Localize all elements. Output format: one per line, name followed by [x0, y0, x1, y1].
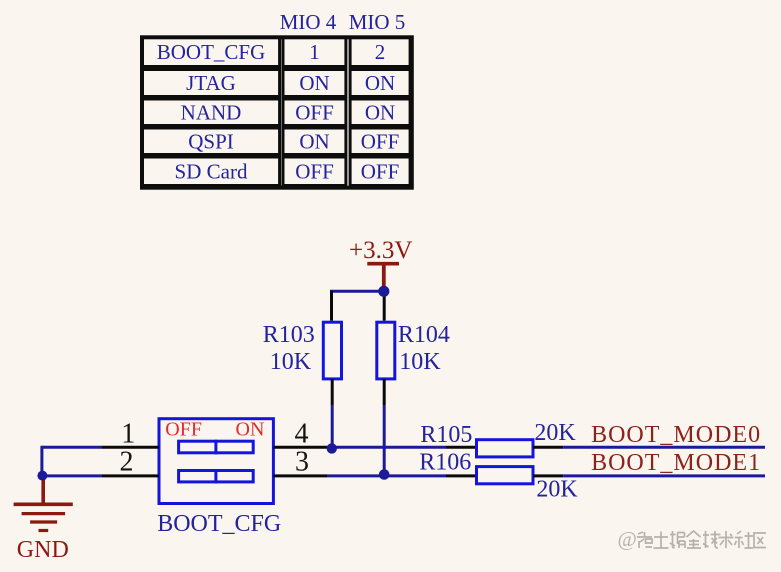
svg-text:R106: R106: [419, 450, 471, 476]
ground bar 4: [39, 529, 49, 532]
switch element row2: [179, 471, 254, 482]
svg-text:NAND: NAND: [181, 100, 242, 124]
resistor R103: [323, 322, 341, 379]
table cell r5c1: [143, 157, 280, 186]
svg-text:ON: ON: [299, 129, 329, 153]
junction node ground: [37, 471, 47, 481]
svg-text:10K: 10K: [270, 349, 312, 375]
watermark char shu: [719, 531, 734, 548]
svg-text:QSPI: QSPI: [188, 129, 234, 153]
svg-text:2: 2: [120, 446, 134, 477]
resistor R106 right pin: [533, 474, 563, 477]
ground bar 3: [30, 520, 57, 523]
watermark char xi: [637, 532, 652, 548]
svg-text:JTAG: JTAG: [186, 71, 236, 95]
svg-text:SD Card: SD Card: [175, 159, 248, 183]
switch pin 3: [273, 474, 327, 477]
table cell r2c3: [350, 70, 410, 97]
watermark char jin: [687, 531, 702, 548]
junction node A (R103 to pin4 net): [327, 443, 337, 453]
wire R104 to node B: [383, 405, 386, 475]
svg-text:R105: R105: [420, 422, 472, 448]
table cell r3c2: [283, 99, 346, 126]
table cell r1c2: [283, 38, 346, 67]
table cell r5c3: [350, 157, 410, 186]
svg-text:2: 2: [375, 40, 386, 64]
power symbol +3.3V bar: [367, 262, 399, 266]
watermark char she: [735, 531, 754, 548]
wire pin1 net left: [42, 446, 102, 449]
wire R103 to node A: [331, 405, 334, 448]
svg-text:BOOT_CFG: BOOT_CFG: [157, 40, 266, 64]
svg-text:GND: GND: [17, 537, 69, 563]
svg-text:MIO 4: MIO 4: [280, 10, 337, 34]
svg-text:ON: ON: [365, 71, 395, 95]
switch element row1: [179, 441, 254, 453]
switch pin 2: [102, 474, 159, 477]
wire pin2 net left: [42, 474, 102, 477]
switch pin 1: [102, 446, 159, 449]
svg-text:3: 3: [295, 446, 309, 477]
wire net BOOT_MODE1: [563, 474, 765, 477]
svg-text:ON: ON: [365, 100, 395, 124]
resistor R105: [477, 440, 534, 457]
watermark char ji: [703, 531, 721, 548]
table cell r4c2: [283, 128, 346, 155]
watermark char tu: [654, 532, 669, 549]
resistor R105 left pin: [446, 446, 477, 449]
table cell r2c2: [283, 70, 346, 97]
junction node power: [378, 286, 389, 297]
resistor R104 top pin: [383, 291, 386, 320]
resistor R104 bottom pin: [383, 379, 386, 405]
svg-text:10K: 10K: [399, 349, 441, 375]
junction node B (R104 to pin3 net): [379, 469, 390, 480]
switch U BOOT_CFG body: [159, 419, 273, 504]
svg-text:MIO 5: MIO 5: [349, 10, 406, 34]
svg-text:BOOT_MODE1: BOOT_MODE1: [591, 450, 761, 476]
table cell r5c2: [283, 157, 346, 186]
svg-text:ON: ON: [236, 419, 265, 441]
svg-text:BOOT_CFG: BOOT_CFG: [157, 511, 281, 537]
wire net BOOT_MODE0: [563, 446, 765, 449]
watermark char jue: [670, 531, 685, 548]
table cell r1c3: [350, 38, 410, 67]
watermark char qu: [754, 533, 766, 548]
ground bar 2: [22, 512, 66, 515]
switch pin 4: [273, 446, 327, 449]
svg-text:OFF: OFF: [361, 159, 400, 183]
svg-text:OFF: OFF: [295, 100, 334, 124]
resistor R106: [477, 467, 534, 484]
wire pin4 net to R105: [327, 446, 446, 449]
ground bar 1: [14, 502, 73, 506]
wire pin1 net corner down: [40, 446, 43, 476]
svg-text:20K: 20K: [534, 420, 576, 446]
table cell r1c1: [143, 38, 280, 67]
table cell r2c1: [143, 70, 280, 97]
svg-text:R103: R103: [263, 322, 315, 348]
table cell r3c1: [143, 99, 280, 126]
wire power to R103: [330, 290, 384, 293]
resistor R103 bottom pin: [331, 379, 334, 405]
switch element row2 divider: [214, 469, 217, 483]
resistor R104: [377, 322, 395, 379]
table cell r4c1: [143, 128, 280, 155]
svg-text:+3.3V: +3.3V: [349, 237, 412, 264]
svg-text:OFF: OFF: [165, 419, 202, 441]
svg-text:@: @: [618, 527, 637, 551]
resistor R105 right pin: [533, 446, 563, 449]
resistor R106 left pin: [446, 474, 477, 477]
svg-text:R104: R104: [398, 322, 450, 348]
switch element row1 divider: [214, 440, 217, 455]
svg-text:1: 1: [121, 418, 135, 449]
wire pin3 net to R106: [327, 474, 446, 477]
svg-text:OFF: OFF: [295, 159, 334, 183]
power symbol +3.3V stem: [382, 264, 386, 290]
svg-text:OFF: OFF: [361, 129, 400, 153]
svg-text:1: 1: [309, 40, 320, 64]
svg-text:20K: 20K: [536, 476, 578, 502]
resistor R103 top pin: [330, 291, 333, 321]
svg-text:4: 4: [295, 418, 309, 449]
table cell r4c3: [350, 128, 410, 155]
ground stem: [41, 476, 45, 503]
svg-text:BOOT_MODE0: BOOT_MODE0: [591, 422, 761, 448]
table cell r3c3: [350, 99, 410, 126]
svg-text:ON: ON: [299, 71, 329, 95]
table outer frame: [142, 37, 412, 187]
